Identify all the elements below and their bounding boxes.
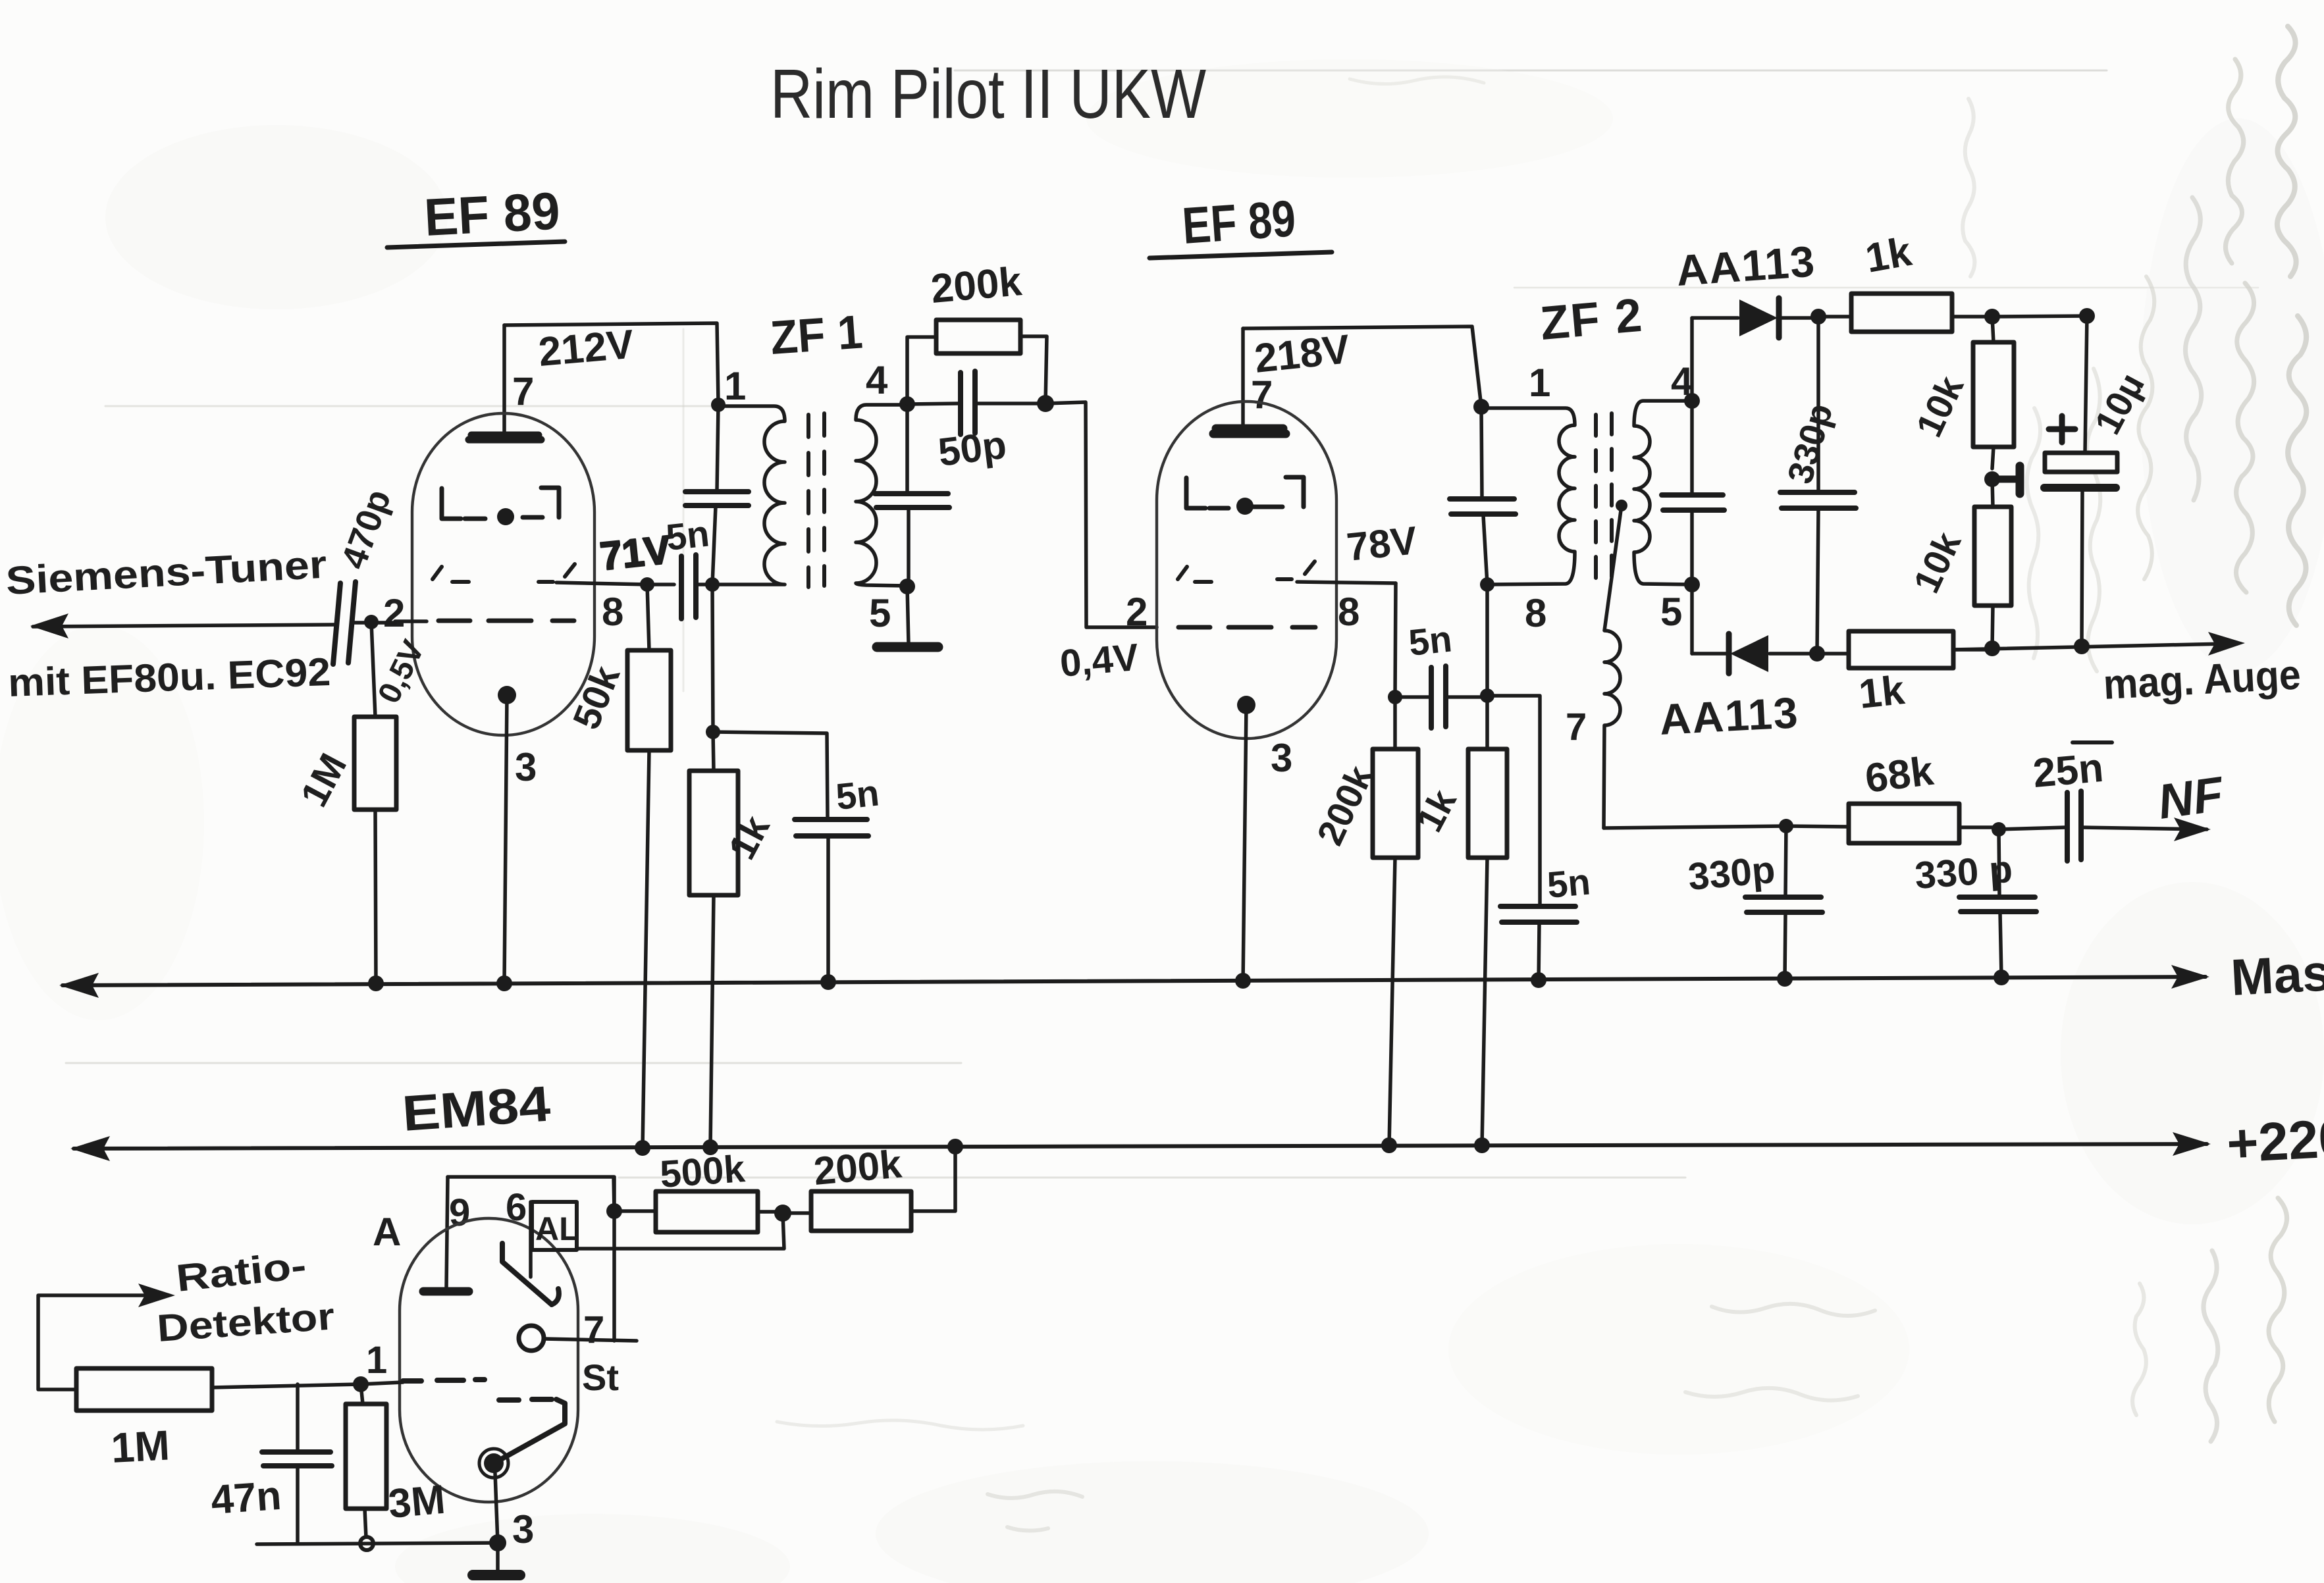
label + (10u polarity) — [2049, 416, 2075, 442]
svg-text:3: 3 — [515, 745, 537, 789]
wire tertiary to 68k — [1604, 826, 1849, 828]
svg-text:7: 7 — [512, 369, 534, 413]
wire ZF1 pin2 down to 1k — [712, 584, 713, 732]
transformer ZF2 core — [1596, 413, 1612, 589]
resistor 1k anode feed V2 — [1468, 696, 1507, 1146]
arrowhead +220V left — [70, 1136, 110, 1161]
cathode V2 — [1237, 696, 1255, 983]
capacitor 330p (left, to Masse) — [1745, 826, 1822, 980]
svg-text:71V: 71V — [598, 527, 672, 579]
wire EM84 cathode bottom — [257, 1543, 498, 1544]
svg-text:3: 3 — [1271, 736, 1292, 780]
node 10u bottom junction — [2074, 638, 2090, 654]
wire AL box loop to divider — [577, 1213, 784, 1249]
svg-text:+220V: +220V — [2225, 1106, 2324, 1174]
resistor 200k across ZF1 — [907, 320, 1047, 404]
transformer ZF2 tertiary winding (pin 7) — [1604, 500, 1627, 828]
svg-text:2: 2 — [1126, 590, 1148, 634]
capacitor 5n decoupling V2 (to Masse) — [1487, 696, 1577, 981]
svg-text:EM84: EM84 — [400, 1076, 552, 1141]
capacitor across ZF1 secondary — [875, 404, 949, 586]
resistor 1k (bottom) — [1817, 631, 1992, 668]
node ZF2 pin1 — [1473, 399, 1489, 415]
resistor 200k (EM84) — [783, 1147, 955, 1231]
node Masse/V1 cathode — [496, 975, 512, 991]
node anode feed junction — [706, 725, 720, 739]
node pin3/ground — [489, 1534, 506, 1551]
wire +220V rail — [74, 1144, 2207, 1149]
deflection electrode EM84 — [502, 1243, 559, 1305]
node ZF1 output junction — [1037, 395, 1054, 412]
arrowhead Ratio-Detektor — [138, 1284, 175, 1307]
svg-text:1: 1 — [1529, 361, 1550, 405]
svg-text:1M: 1M — [110, 1421, 171, 1472]
resistor 50k screen dropper — [627, 584, 671, 1148]
node ZF1 pin2 junction — [705, 577, 720, 592]
svg-text:NF: NF — [2155, 766, 2228, 829]
svg-text:78V: 78V — [1344, 518, 1419, 569]
svg-text:5n: 5n — [1407, 617, 1454, 663]
pin 2 wire V1 (through wall) — [395, 619, 427, 623]
node 10k bottom junction — [1984, 640, 2000, 656]
wire V2 anode to ZF2 pin1 (top) — [1243, 326, 1481, 407]
svg-text:5: 5 — [1660, 590, 1682, 634]
svg-text:68k: 68k — [1862, 748, 1936, 802]
wire Masse rail — [63, 977, 2205, 985]
tube V2 EF89 envelope — [1157, 402, 1336, 739]
svg-text:200k: 200k — [812, 1142, 903, 1193]
tube V1 EF89 envelope — [412, 413, 594, 735]
node Masse/330p right — [1994, 970, 2009, 985]
wire ZF1 out to V2 pin2 — [1045, 402, 1157, 627]
transformer ZF2 primary winding — [1481, 408, 1575, 584]
wire V2 pin8 down — [1395, 583, 1396, 697]
grid g1 V2 — [1186, 477, 1304, 515]
svg-text:Rim Pilot II UKW: Rim Pilot II UKW — [770, 55, 1206, 133]
svg-text:0,4V: 0,4V — [1058, 636, 1140, 685]
svg-text:ZF 2: ZF 2 — [1538, 289, 1645, 350]
wire pin4 up to top diode — [1690, 318, 1694, 401]
pin 9 lead EM84 — [446, 1177, 448, 1288]
node ZF1 pin1 — [711, 398, 726, 412]
node ZF1 pin4 — [899, 396, 915, 412]
svg-text:AA113: AA113 — [1675, 236, 1817, 295]
node 10u top junction — [2079, 308, 2095, 324]
svg-text:EF 89: EF 89 — [1180, 189, 1298, 255]
capacitor 47n — [262, 1384, 332, 1543]
capacitor across ZF2 secondary — [1662, 401, 1724, 584]
resistor 1M grid leak — [354, 622, 396, 983]
wire input from tuner — [33, 625, 334, 627]
svg-text:8: 8 — [1338, 590, 1360, 634]
arrowhead +220V right — [2173, 1132, 2211, 1156]
svg-text:330p: 330p — [1686, 848, 1776, 898]
potentiometer wiper node — [1984, 466, 2020, 494]
svg-text:50p: 50p — [936, 423, 1009, 475]
arrowhead Masse left — [59, 973, 99, 998]
diode AA113 top — [1692, 298, 1818, 338]
node Masse/1M — [368, 975, 384, 991]
resistor 68k — [1849, 804, 1999, 843]
diode AA113 bottom — [1692, 634, 1817, 673]
svg-text:4: 4 — [866, 358, 888, 402]
svg-text:8: 8 — [1525, 591, 1546, 635]
node 5n left junction V2 — [1388, 690, 1402, 704]
node +220V/1k V1 — [702, 1139, 718, 1155]
resistor 1M (ratio detector) — [38, 1295, 212, 1411]
svg-text:AL: AL — [535, 1210, 579, 1247]
svg-text:500k: 500k — [658, 1147, 747, 1196]
resistor 10k lower — [1974, 479, 2011, 648]
node V1 pin8 junction — [640, 577, 654, 592]
node top diode output — [1810, 309, 1826, 324]
svg-text:1: 1 — [366, 1339, 387, 1382]
node 330p left junction — [1779, 819, 1793, 833]
capacitor 330p (diode load) — [1780, 317, 1856, 654]
svg-text:47n: 47n — [209, 1473, 282, 1523]
node ZF2 pin5 — [1684, 577, 1700, 592]
capacitor 5n coupling V1 — [647, 555, 712, 619]
wire 470p to V1 pin2 — [352, 621, 395, 625]
svg-text:3: 3 — [512, 1507, 534, 1551]
svg-text:212V: 212V — [537, 322, 635, 375]
anode plate V2 — [1213, 428, 1286, 434]
node 500k left — [606, 1203, 622, 1219]
wire pin1 from 1M — [212, 1382, 403, 1388]
node Masse/V2 cathode — [1235, 973, 1251, 989]
grid g2 V2 (dashed) — [1178, 625, 1315, 630]
grid g2 V1 (dashed) — [438, 619, 574, 623]
pin 7 terminal EM84 — [519, 1326, 637, 1351]
node 500k/200k junction — [774, 1205, 791, 1222]
node Masse/330p left — [1777, 971, 1793, 987]
ground ZF1 secondary — [877, 642, 938, 652]
pin 7 lead V2 — [1241, 328, 1245, 431]
resistor 200k screen V2 — [1373, 697, 1418, 1146]
svg-text:5: 5 — [869, 591, 891, 635]
capacitor across ZF2 primary — [1450, 407, 1516, 584]
arrowhead input (left) — [30, 613, 68, 638]
wire AL to 500k junction (vertical) — [612, 1177, 616, 1341]
wire V1 anode to ZF1 pin1 (top) — [504, 323, 718, 403]
node +220V/1k V2 — [1474, 1137, 1490, 1153]
label tube V2 EF89 — [1149, 189, 1332, 258]
arrowhead NF — [2174, 817, 2211, 841]
node 330p right junction — [1992, 822, 2006, 837]
svg-text:7: 7 — [583, 1309, 604, 1351]
box AL — [532, 1202, 579, 1250]
capacitor across ZF1 primary — [685, 405, 749, 584]
svg-text:1k: 1k — [1857, 667, 1907, 717]
node +220V/200k EM84 — [947, 1139, 963, 1155]
transformer ZF1 primary winding — [712, 406, 785, 584]
svg-text:330 p: 330 p — [1913, 848, 2014, 897]
capacitor 25n — [1999, 791, 2207, 861]
resistor 10k upper — [1973, 317, 2014, 469]
svg-text:7: 7 — [1566, 706, 1587, 748]
node +220V/50k — [635, 1140, 650, 1156]
svg-text:A: A — [373, 1210, 401, 1254]
arrowhead mag. Auge — [2208, 632, 2245, 656]
resistor 1k (top right) — [1818, 294, 1992, 332]
svg-text:4: 4 — [1671, 359, 1693, 403]
capacitor 5n coupling V2 — [1395, 666, 1487, 728]
svg-text:25n: 25n — [2031, 745, 2105, 796]
svg-text:5n: 5n — [834, 771, 882, 817]
node ZF2 pin4 — [1684, 393, 1700, 409]
arrowhead Masse right — [2171, 965, 2209, 989]
node ZF1 pin5 — [899, 579, 915, 594]
anode plate EM84 — [423, 1287, 469, 1296]
node junction 470p / 1M — [364, 615, 379, 629]
cathode V1 — [498, 686, 516, 983]
svg-text:EF 89: EF 89 — [423, 181, 561, 247]
svg-text:1: 1 — [724, 364, 746, 408]
svg-text:5n: 5n — [664, 512, 712, 558]
svg-text:8: 8 — [602, 590, 623, 634]
node pin1/3M junction — [353, 1376, 369, 1392]
svg-text:3M: 3M — [386, 1477, 447, 1527]
svg-text:5n: 5n — [1546, 860, 1593, 905]
grid g3 V1 (slashes) — [433, 564, 575, 582]
wire to mag. Auge — [1953, 644, 2225, 650]
node 5n right junction V2 — [1480, 688, 1494, 703]
anode plate V1 — [469, 435, 541, 440]
tube V3 EM84 envelope — [400, 1218, 578, 1502]
node +220V/200k V2 — [1381, 1137, 1397, 1153]
wire EM84 top — [448, 1177, 614, 1212]
label tube V1 EF89 — [387, 181, 565, 247]
pin 6 lead EM84 — [529, 1202, 533, 1277]
transformer ZF1 secondary winding — [856, 405, 907, 586]
resistor 1k anode feed V1 — [689, 732, 738, 1147]
grid g1 V1 — [442, 488, 559, 525]
node ZF2 pin8 junction — [1480, 577, 1494, 592]
pin 8 wire V2 — [1297, 582, 1396, 583]
resistor 500k — [614, 1191, 783, 1232]
wire top rail to 10u — [1992, 316, 2087, 317]
transformer ZF2 secondary winding — [1634, 401, 1692, 584]
svg-text:200k: 200k — [929, 259, 1024, 312]
svg-text:AA113: AA113 — [1658, 688, 1800, 744]
grid row pin1 EM84 (dashed) — [403, 1380, 485, 1381]
svg-text:2: 2 — [383, 591, 405, 635]
capacitor 470p — [333, 582, 356, 664]
svg-text:1k: 1k — [1862, 229, 1915, 282]
capacitor 50p — [907, 371, 1045, 434]
capacitor 5n decoupling (to Masse) — [713, 732, 868, 983]
node bottom diode output — [1809, 646, 1825, 662]
grid g3 V2 (slashes) — [1178, 561, 1315, 582]
resistor 3M — [346, 1384, 386, 1550]
cathode EM84 — [479, 1449, 508, 1543]
wire ZF2 pin8 down — [1485, 584, 1489, 696]
node Masse/5n decoupling — [820, 974, 836, 990]
wire pin5 to ground — [907, 586, 909, 644]
svg-text:Masse: Masse — [2229, 941, 2324, 1006]
label 25n — [2031, 742, 2112, 796]
capacitor 330 p (right, to Masse) — [1959, 829, 2036, 976]
transformer ZF1 core — [808, 413, 824, 587]
svg-text:7: 7 — [1251, 373, 1273, 417]
capacitor 10u electrolytic — [2044, 316, 2117, 645]
svg-text:St: St — [582, 1357, 619, 1398]
ground EM84 cathode — [473, 1543, 520, 1575]
node 10k top junction — [1984, 309, 2000, 324]
pin 8 wire V1 — [556, 583, 647, 584]
svg-text:ZF 1: ZF 1 — [769, 305, 864, 365]
node Masse/5n V2 — [1531, 972, 1546, 988]
triode grid row EM84 (dashed) — [495, 1399, 565, 1463]
pin 7 lead V1 — [502, 325, 506, 436]
wire pin5 down to bottom diode — [1690, 584, 1694, 654]
